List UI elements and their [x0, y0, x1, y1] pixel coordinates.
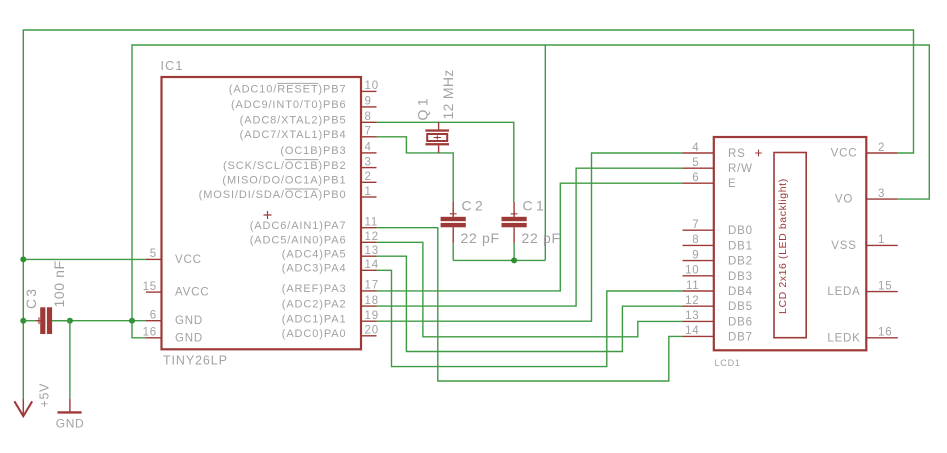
pin 19 (ADC1)PA1: [361, 320, 377, 322]
pin 12 (ADC5/AIN0)PA6: [361, 241, 377, 243]
svg-text:19: 19: [365, 310, 379, 322]
svg-text:C2: C2: [462, 198, 487, 214]
svg-text:(ADC8/XTAL2)PB5: (ADC8/XTAL2)PB5: [240, 115, 347, 127]
svg-text:(MISO/DO/OC1A)PB1: (MISO/DO/OC1A)PB1: [222, 175, 346, 187]
pin 7 DB0 (LCD left): [683, 229, 714, 231]
svg-text:8: 8: [692, 234, 699, 246]
pin 15 LEDA (LCD right): [866, 291, 898, 293]
svg-text:DB3: DB3: [728, 271, 753, 283]
svg-text:6: 6: [692, 172, 699, 184]
pin 1 VSS (LCD right): [866, 244, 898, 246]
svg-text:4: 4: [692, 142, 699, 154]
svg-text:Q1: Q1: [415, 95, 431, 121]
svg-text:14: 14: [685, 325, 699, 337]
svg-text:3: 3: [878, 188, 885, 200]
wire GND hook to IC pin 16: [132, 321, 146, 338]
svg-text:22 pF: 22 pF: [461, 230, 500, 246]
svg-text:7: 7: [692, 219, 699, 231]
svg-text:2: 2: [878, 142, 885, 154]
svg-text:DB2: DB2: [728, 256, 753, 268]
wire net PA7 to LCD DB7: [377, 228, 683, 381]
svg-text:GND: GND: [56, 417, 84, 431]
svg-text:LCD1: LCD1: [715, 358, 741, 368]
svg-text:12: 12: [365, 231, 379, 243]
svg-text:16: 16: [143, 327, 157, 339]
wire net PA2 to LCD R/W: [377, 168, 683, 306]
pin 2 (MISO/DO/OC1A)PB1: [361, 181, 377, 183]
pin 4 RS (LCD left): [683, 152, 714, 154]
svg-text:5: 5: [692, 157, 699, 169]
pin 4 (OC1B)PB3: [361, 152, 377, 154]
wire net PA4 to LCD DB4: [377, 270, 683, 366]
svg-text:14: 14: [365, 259, 379, 271]
svg-text:(ADC2)PA2: (ADC2)PA2: [282, 298, 347, 310]
svg-text:16: 16: [878, 327, 892, 339]
node junction GND symbol riser: [67, 318, 73, 324]
pin 3 VO (LCD right): [866, 198, 898, 200]
svg-text:5: 5: [150, 248, 157, 260]
svg-text:VCC: VCC: [175, 254, 202, 266]
svg-text:12 MHz: 12 MHz: [440, 69, 456, 119]
svg-text:4: 4: [365, 142, 372, 154]
svg-text:VO: VO: [835, 194, 853, 206]
svg-text:11: 11: [365, 217, 379, 229]
svg-text:7: 7: [365, 126, 372, 138]
svg-text:LEDK: LEDK: [827, 332, 860, 344]
svg-text:(ADC6/AIN1)PA7: (ADC6/AIN1)PA7: [250, 220, 347, 232]
wire GND horizontal C3 row to IC pin 6: [52, 320, 146, 322]
svg-text:LEDA: LEDA: [827, 286, 860, 298]
pin 16 GND (left): [146, 337, 162, 339]
svg-text:10: 10: [685, 265, 699, 277]
svg-text:13: 13: [365, 245, 379, 257]
svg-text:1: 1: [878, 234, 885, 246]
pin 8 DB1 (LCD left): [683, 244, 714, 246]
svg-text:22 pF: 22 pF: [522, 230, 561, 246]
wire +5V branch to IC VCC pin 5: [23, 258, 146, 260]
pin 9 (ADC9/INT0/T0)PB6: [361, 106, 377, 108]
pin 8 (ADC8/XTAL2)PB5: [361, 121, 377, 123]
wire GND left vertical, top rail, right vertical to LCD VO: [132, 45, 929, 321]
wire C3 left lead wire: [23, 320, 40, 322]
svg-text:15: 15: [878, 280, 892, 292]
svg-text:(ADC7/XTAL1)PB4: (ADC7/XTAL1)PB4: [240, 129, 347, 141]
svg-text:GND: GND: [175, 315, 203, 327]
svg-text:(AREF)PA3: (AREF)PA3: [282, 283, 347, 295]
pin 17 (AREF)PA3: [361, 290, 377, 292]
pin 14 DB7 (LCD left): [683, 335, 714, 337]
wire capacitor GND rail: [453, 259, 545, 261]
svg-text:12: 12: [685, 295, 699, 307]
svg-text:VCC: VCC: [831, 148, 858, 160]
svg-text:10: 10: [365, 80, 379, 92]
capacitor C2 22 pF: [452, 202, 454, 217]
svg-text:15: 15: [143, 281, 157, 293]
capacitor C3 100 nF: [40, 307, 45, 334]
pin 6 GND (left): [146, 320, 162, 322]
svg-text:(ADC4)PA5: (ADC4)PA5: [282, 248, 347, 260]
svg-text:VSS: VSS: [831, 240, 856, 252]
svg-text:DB5: DB5: [728, 301, 753, 313]
svg-text:11: 11: [686, 280, 700, 292]
svg-text:+5V: +5V: [38, 383, 52, 408]
svg-text:6: 6: [150, 310, 157, 322]
svg-text:R/W: R/W: [728, 163, 753, 175]
wire C1 bottom lead wire: [513, 243, 515, 260]
svg-text:E: E: [728, 178, 736, 190]
svg-text:2: 2: [365, 171, 372, 183]
pin 10 DB3 (LCD left): [683, 275, 714, 277]
pin 13 (ADC4)PA5: [361, 255, 377, 257]
node junction +5V/C3: [20, 318, 26, 324]
svg-text:(SCK/SCL/OC1B)PB2: (SCK/SCL/OC1B)PB2: [223, 160, 347, 172]
pin 2 VCC (LCD right): [866, 152, 898, 154]
svg-text:(ADC0)PA0: (ADC0)PA0: [282, 328, 347, 340]
svg-text:8: 8: [365, 111, 372, 123]
svg-text:18: 18: [365, 295, 379, 307]
+5V supply symbol: [22, 399, 24, 416]
pin 18 (ADC2)PA2: [361, 305, 377, 307]
svg-text:100 nF: 100 nF: [51, 260, 67, 307]
svg-text:1: 1: [365, 186, 372, 198]
pin 15 AVCC (left): [146, 291, 162, 293]
pin 7 (ADC7/XTAL1)PB4: [361, 136, 377, 138]
capacitor C1 22 pF: [513, 202, 515, 217]
svg-text:C3: C3: [23, 287, 39, 309]
IC U1 box: IC1 TINY26LP: [162, 77, 362, 349]
svg-text:20: 20: [365, 325, 379, 337]
pin 5 R/W (LCD left): [683, 167, 714, 169]
wire net PA1 to LCD RS: [377, 153, 683, 321]
svg-text:(ADC1)PA1: (ADC1)PA1: [282, 313, 347, 325]
wire net XTAL1: IC pin 7 jog to C2 top / crystal bottom: [377, 137, 454, 202]
pin 10 (ADC10/RESET)PB7: [361, 90, 377, 92]
svg-text:DB1: DB1: [728, 240, 753, 252]
ground symbol GND: [69, 399, 71, 411]
svg-text:13: 13: [685, 310, 699, 322]
svg-text:(ADC3)PA4: (ADC3)PA4: [282, 263, 347, 275]
LCD module LCD1 box: [714, 137, 867, 350]
svg-text:9: 9: [365, 96, 372, 108]
pin 16 LEDK (LCD right): [866, 337, 898, 339]
svg-text:AVCC: AVCC: [175, 287, 209, 299]
svg-text:(ADC5/AIN0)PA6: (ADC5/AIN0)PA6: [250, 235, 347, 247]
wire C2 bottom lead wire: [452, 243, 454, 260]
pin 3 (SCK/SCL/OC1B)PB2: [361, 167, 377, 169]
svg-text:TINY26LP: TINY26LP: [163, 354, 228, 368]
pin 5 VCC (left): [146, 258, 162, 260]
wire net PA5 to LCD DB5: [377, 256, 683, 351]
wire net PA6 to LCD DB6: [377, 242, 683, 336]
svg-text:(ADC9/INT0/T0)PB6: (ADC9/INT0/T0)PB6: [231, 99, 347, 111]
wire GND symbol riser: [69, 321, 71, 399]
LCD1 origin cross: [755, 150, 762, 157]
svg-text:C1: C1: [523, 198, 548, 214]
pin 13 DB6 (LCD left): [683, 320, 714, 322]
svg-text:DB0: DB0: [728, 225, 753, 237]
svg-text:GND: GND: [175, 332, 203, 344]
svg-text:DB7: DB7: [728, 331, 753, 343]
wire +5V rail: left vertical, top rail, right vertical to LCD VCC: [23, 30, 913, 399]
svg-text:DB6: DB6: [728, 316, 753, 328]
svg-text:IC1: IC1: [161, 59, 184, 73]
svg-text:LCD 2x16 (LED backlight): LCD 2x16 (LED backlight): [777, 178, 789, 314]
node junction C1 bottom: [511, 257, 517, 263]
pin 20 (ADC0)PA0: [361, 335, 377, 337]
svg-text:3: 3: [365, 156, 372, 168]
pin 6 E (LCD left): [683, 182, 714, 184]
node junction +5V/VCC: [20, 256, 26, 262]
wire GND drop to capacitor rail: [544, 45, 546, 260]
svg-text:DB4: DB4: [728, 286, 753, 298]
svg-text:17: 17: [365, 280, 379, 292]
pin 14 (ADC3)PA4: [361, 269, 377, 271]
wire net XTAL2: IC pin 8 to C1 top / crystal top: [377, 122, 514, 202]
wire net PA3 to LCD E: [377, 183, 683, 291]
svg-text:(MOSI/DI/SDA/OC1A)PB0: (MOSI/DI/SDA/OC1A)PB0: [199, 189, 347, 201]
svg-text:(OC1B)PB3: (OC1B)PB3: [280, 145, 346, 157]
IC1 origin cross: [264, 211, 272, 219]
svg-text:9: 9: [692, 249, 699, 261]
pin 12 DB5 (LCD left): [683, 305, 714, 307]
pin 11 DB4 (LCD left): [683, 290, 714, 292]
svg-text:(ADC10/RESET)PB7: (ADC10/RESET)PB7: [229, 84, 347, 96]
pin 1 (MOSI/DI/SDA/OC1A)PB0: [361, 196, 377, 198]
svg-text:RS: RS: [728, 148, 746, 160]
pin 9 DB2 (LCD left): [683, 260, 714, 262]
crystal Q1 12 MHz: [438, 122, 440, 129]
node junction GND vertical: [129, 318, 135, 324]
pin 11 (ADC6/AIN1)PA7: [361, 227, 377, 229]
